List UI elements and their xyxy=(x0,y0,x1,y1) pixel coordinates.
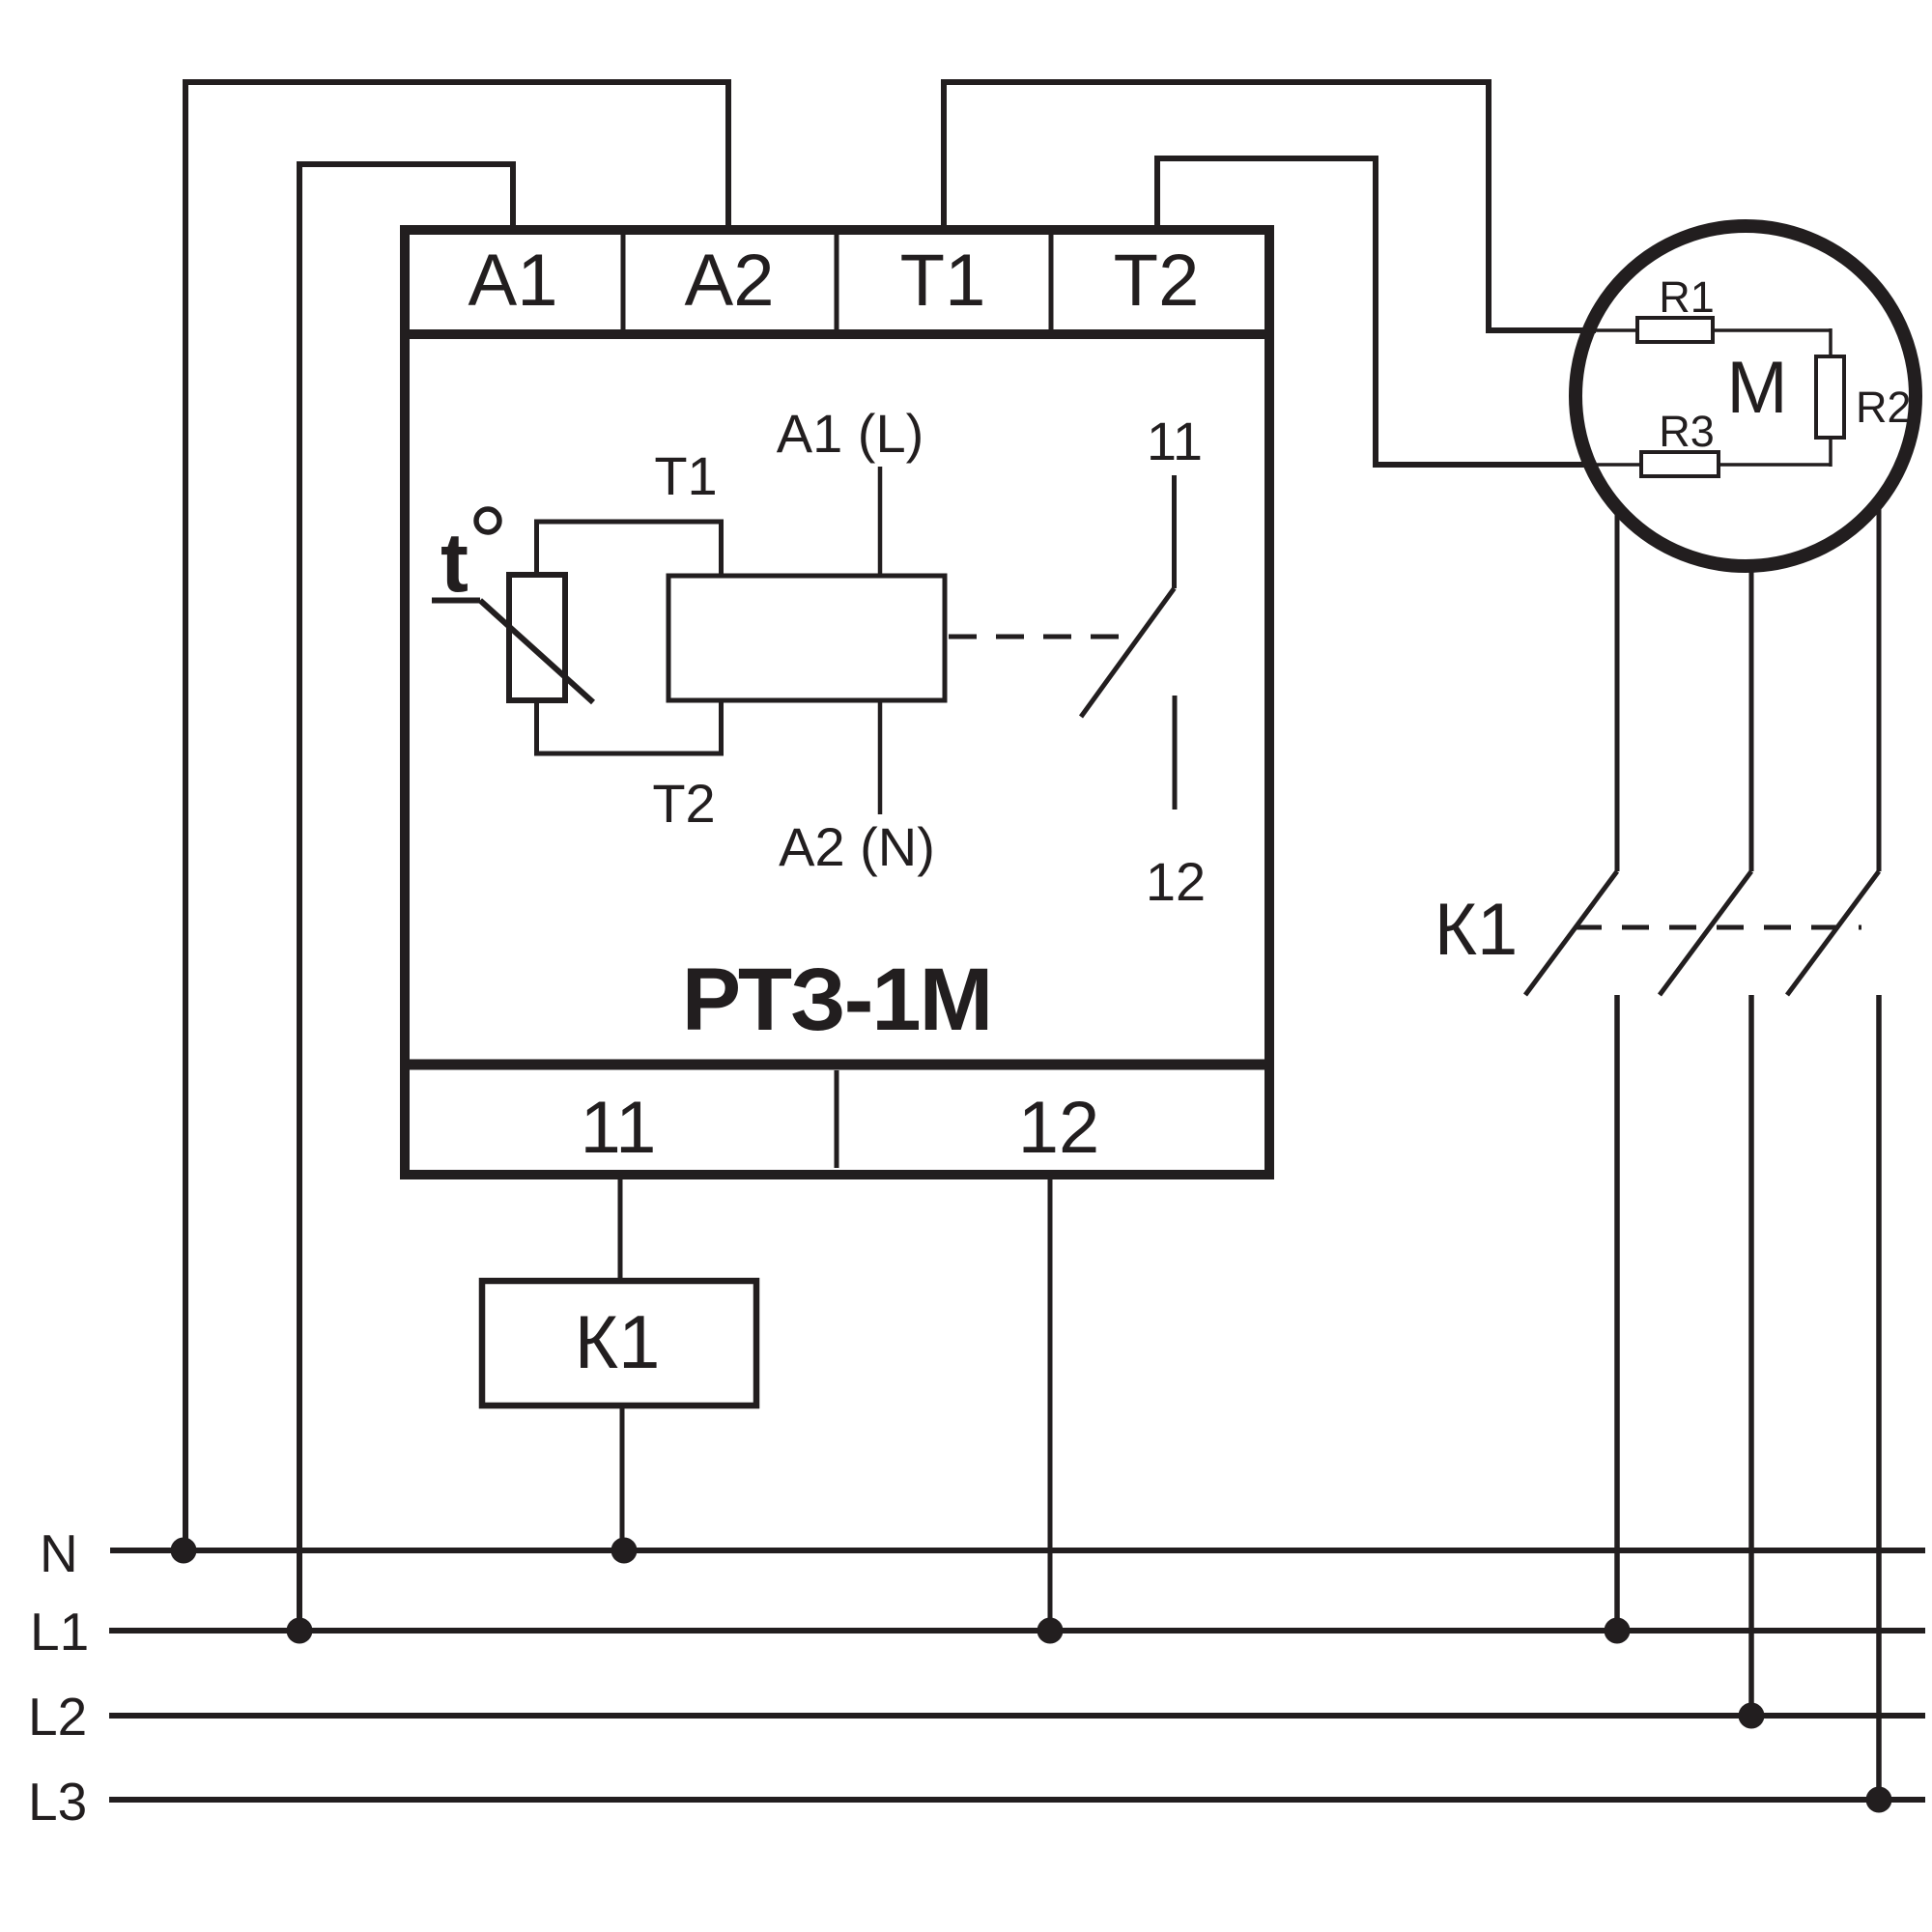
svg-text:R1: R1 xyxy=(1659,272,1715,322)
junction node L2 / contact 2 xyxy=(1739,1703,1765,1729)
svg-text:РТЗ-1М: РТЗ-1М xyxy=(682,951,991,1049)
svg-text:L2: L2 xyxy=(28,1687,87,1747)
svg-text:T2: T2 xyxy=(652,773,715,834)
motor phase wire 3 xyxy=(1877,500,1882,871)
terminal separator A2|T1 xyxy=(835,234,839,329)
svg-text:L3: L3 xyxy=(28,1772,87,1832)
sensor R2 box xyxy=(1816,356,1844,438)
wire L1 bus xyxy=(109,1628,1925,1634)
thermistor sensor symbol t° xyxy=(509,575,565,700)
svg-text:11: 11 xyxy=(581,1087,657,1169)
sensor R3 box xyxy=(1641,452,1719,476)
terminal separator T1|T2 xyxy=(1049,234,1054,329)
svg-text:T1: T1 xyxy=(654,445,717,506)
wire terminal 11 to K1 coil xyxy=(618,1179,623,1281)
wire K1 coil to N bus xyxy=(620,1406,625,1548)
wire terminal 12 to L1 bus xyxy=(1048,1179,1053,1628)
svg-text:A1 (L): A1 (L) xyxy=(777,403,924,464)
junction node L1 / contact 1 xyxy=(1605,1618,1631,1644)
terminal separator A1|A2 xyxy=(621,234,626,329)
svg-text:t: t xyxy=(440,516,469,610)
relay РТЗ-1М outer box xyxy=(405,230,1269,1175)
svg-text:N: N xyxy=(40,1523,78,1583)
svg-text:M: M xyxy=(1726,347,1787,429)
svg-text:L1: L1 xyxy=(30,1602,89,1662)
terminal separator 11|12 xyxy=(835,1070,839,1168)
motor phase wire 2 xyxy=(1749,563,1754,871)
relay coil box xyxy=(668,576,945,700)
wire N bus xyxy=(110,1548,1925,1553)
sensor R1 box xyxy=(1637,318,1713,342)
wire coil to A2(N) xyxy=(878,700,883,814)
contactor K1 dashed link xyxy=(1575,925,1861,930)
internal contact 12 fixed wire xyxy=(1173,696,1178,810)
svg-text:R2: R2 xyxy=(1856,383,1912,432)
internal contact 11 wire xyxy=(1172,475,1177,588)
contactor coil K1 box xyxy=(482,1281,756,1406)
contact 2 wire to L2 xyxy=(1748,995,1754,1713)
internal contact blade xyxy=(1081,588,1175,717)
svg-text:12: 12 xyxy=(1146,851,1206,912)
svg-text:A1: A1 xyxy=(469,240,558,322)
svg-text:R3: R3 xyxy=(1659,407,1715,456)
svg-text:A2 (N): A2 (N) xyxy=(779,816,935,877)
motor M circle xyxy=(1576,226,1916,566)
wire from terminal T1 to motor sensor R1 xyxy=(944,82,1596,330)
wire L2 bus xyxy=(109,1713,1925,1719)
wire from terminal T2 to motor sensor R3 xyxy=(1157,158,1596,465)
contact 3 wire to L3 xyxy=(1876,995,1882,1797)
sensor loop wires T1-T2 xyxy=(537,522,722,578)
wire from N bus to terminal A2 xyxy=(185,82,728,1548)
thermistor strike line xyxy=(432,598,480,604)
contactor K1 blade 2 xyxy=(1660,871,1751,995)
svg-text:11: 11 xyxy=(1147,411,1203,471)
thick line under top terminal row xyxy=(400,329,1274,339)
sensor R2 leads xyxy=(1829,328,1833,356)
junction node N / K1 coil xyxy=(611,1538,638,1564)
wire from L1 bus to terminal A1 xyxy=(299,164,513,1628)
contactor K1 blade 3 xyxy=(1787,871,1879,995)
svg-text:К1: К1 xyxy=(1435,889,1519,971)
dashed mechanical link coil to contact xyxy=(949,635,1140,639)
contactor K1 blade 1 xyxy=(1525,871,1617,995)
junction node L3 / contact 3 xyxy=(1866,1787,1892,1813)
degree circle of t° xyxy=(476,509,499,532)
motor phase wire 1 xyxy=(1615,503,1620,871)
svg-text:12: 12 xyxy=(1018,1087,1100,1169)
sensor R1 leads xyxy=(1584,328,1637,332)
svg-text:A2: A2 xyxy=(685,240,775,322)
sensor R3 leads xyxy=(1584,463,1641,467)
junction node L1 / terminal 12 xyxy=(1037,1618,1064,1644)
wire A1(L) to coil xyxy=(878,467,883,576)
contact 1 wire to L1 xyxy=(1614,995,1620,1628)
svg-text:T2: T2 xyxy=(1114,240,1200,322)
wire L3 bus xyxy=(109,1797,1925,1803)
junction node N / loop A xyxy=(171,1538,197,1564)
junction node L1 / loop B xyxy=(287,1618,313,1644)
thick line above bottom terminal row xyxy=(400,1060,1274,1070)
svg-text:К1: К1 xyxy=(575,1299,661,1384)
svg-text:T1: T1 xyxy=(900,240,986,322)
